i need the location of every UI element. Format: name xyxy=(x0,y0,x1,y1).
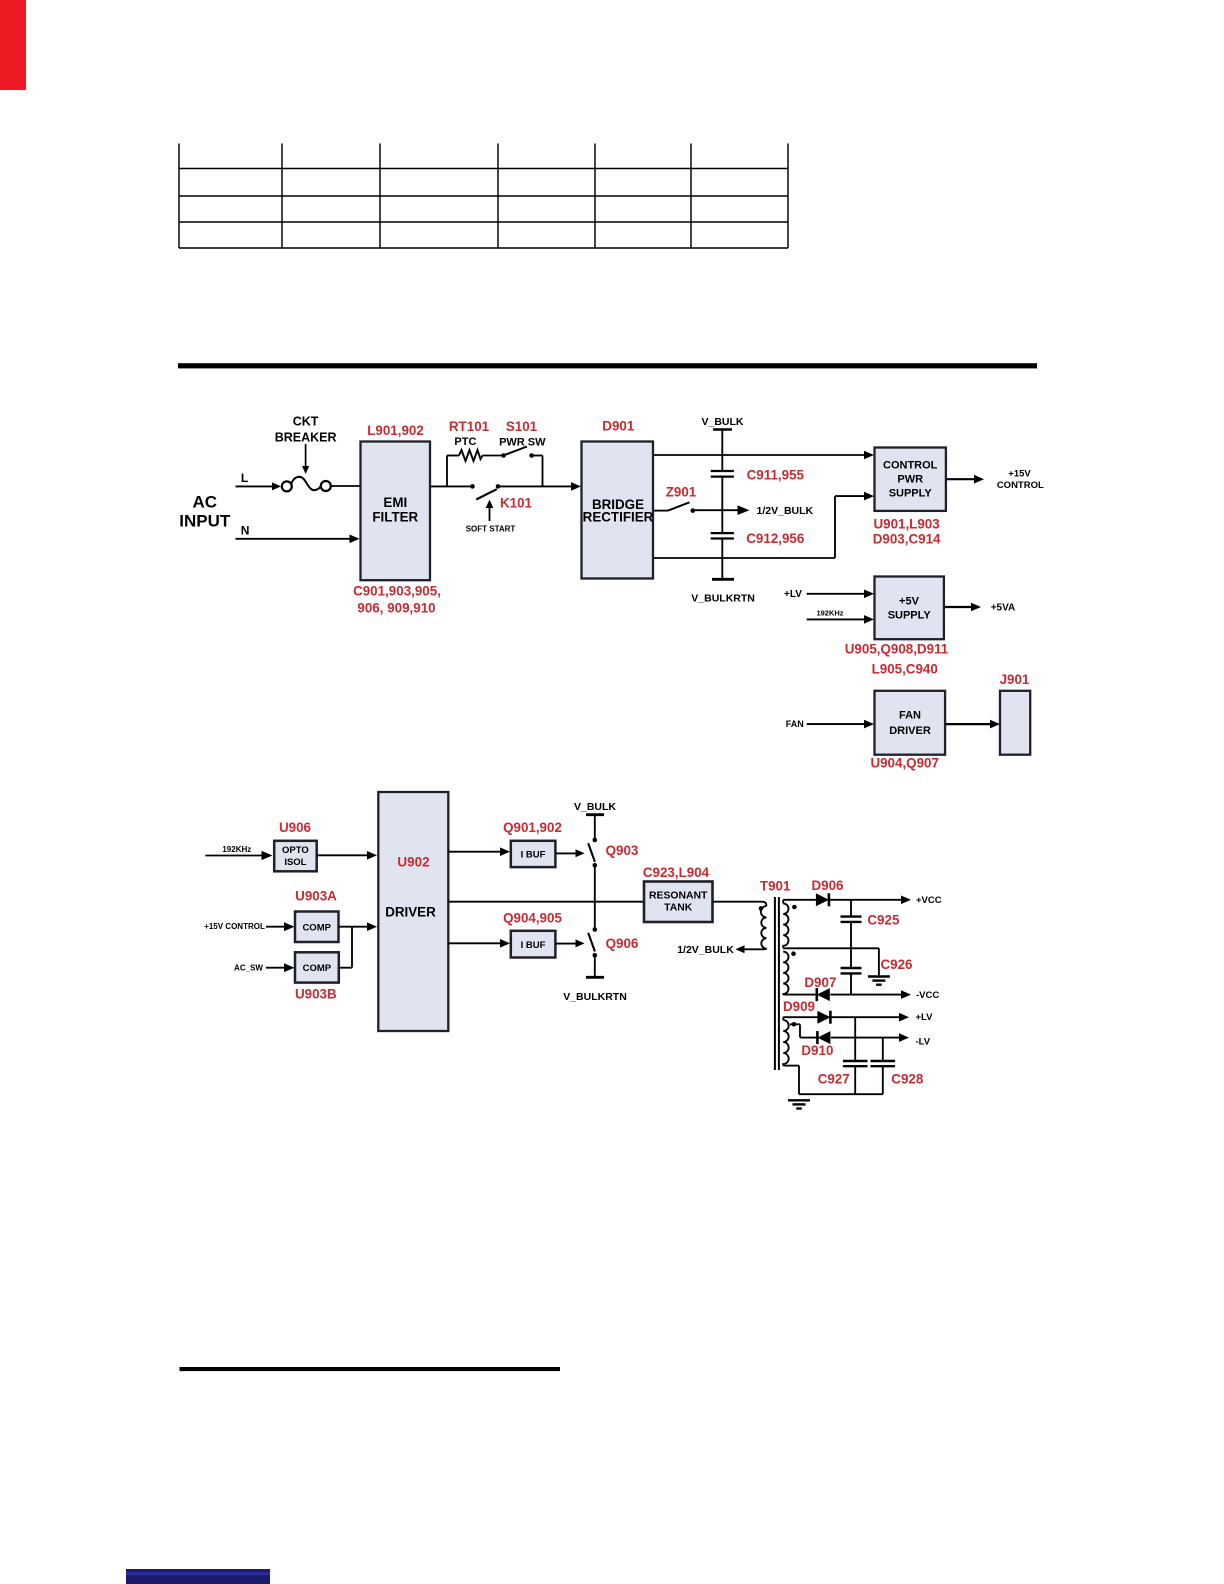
svg-text:PWR SW: PWR SW xyxy=(499,437,546,449)
svg-text:C912,956: C912,956 xyxy=(746,531,804,546)
svg-text:D909: D909 xyxy=(783,999,815,1014)
svg-text:ISOL: ISOL xyxy=(284,857,306,868)
svg-text:CKT: CKT xyxy=(293,414,319,428)
svg-text:1/2V_BULK: 1/2V_BULK xyxy=(757,505,814,517)
svg-text:SUPPLY: SUPPLY xyxy=(889,488,933,500)
svg-text:L: L xyxy=(241,471,248,485)
svg-text:FAN: FAN xyxy=(786,719,804,729)
svg-text:192KHz: 192KHz xyxy=(222,845,251,854)
svg-text:+LV: +LV xyxy=(784,589,802,600)
svg-text:-VCC: -VCC xyxy=(916,990,939,1001)
svg-text:U903A: U903A xyxy=(295,889,337,904)
svg-text:EMI: EMI xyxy=(383,495,407,510)
svg-text:C926: C926 xyxy=(880,957,912,972)
svg-text:D901: D901 xyxy=(602,419,635,434)
svg-text:RT101: RT101 xyxy=(449,419,490,434)
svg-text:BREAKER: BREAKER xyxy=(275,430,337,444)
svg-text:Q903: Q903 xyxy=(606,843,639,858)
svg-text:FILTER: FILTER xyxy=(372,509,418,524)
svg-text:COMP: COMP xyxy=(302,922,331,933)
svg-text:1/2V_BULK: 1/2V_BULK xyxy=(677,944,734,956)
svg-text:C928: C928 xyxy=(891,1071,924,1086)
svg-text:D906: D906 xyxy=(811,878,843,893)
svg-text:906, 909,910: 906, 909,910 xyxy=(357,600,435,615)
svg-text:Q906: Q906 xyxy=(606,936,639,951)
svg-text:L905,C940: L905,C940 xyxy=(872,662,938,677)
svg-text:SUPPLY: SUPPLY xyxy=(888,609,932,621)
svg-text:+5VA: +5VA xyxy=(991,602,1016,613)
svg-text:U901,L903: U901,L903 xyxy=(873,516,939,531)
svg-text:N: N xyxy=(241,524,250,538)
svg-text:+15V CONTROL: +15V CONTROL xyxy=(204,922,265,931)
svg-text:-LV: -LV xyxy=(916,1036,931,1047)
svg-text:RESONANT: RESONANT xyxy=(649,891,708,902)
svg-text:OPTO: OPTO xyxy=(282,845,309,856)
svg-text:COMP: COMP xyxy=(303,963,332,974)
svg-text:I BUF: I BUF xyxy=(521,940,546,951)
svg-text:AC_SW: AC_SW xyxy=(234,964,263,973)
svg-text:V_BULKRTN: V_BULKRTN xyxy=(563,991,627,1003)
svg-text:C925: C925 xyxy=(867,913,900,928)
svg-text:J901: J901 xyxy=(1000,672,1030,687)
svg-text:PTC: PTC xyxy=(454,436,476,448)
svg-text:L901,902: L901,902 xyxy=(367,423,424,438)
svg-text:Z901: Z901 xyxy=(666,484,697,499)
svg-text:+15V: +15V xyxy=(1008,469,1031,480)
svg-text:AC: AC xyxy=(193,493,218,512)
svg-text:S101: S101 xyxy=(506,419,538,434)
svg-text:V_BULK: V_BULK xyxy=(701,416,743,428)
svg-text:INPUT: INPUT xyxy=(179,511,231,530)
svg-text:RECTIFIER: RECTIFIER xyxy=(583,510,654,525)
svg-text:+LV: +LV xyxy=(916,1012,934,1023)
svg-text:DRIVER: DRIVER xyxy=(385,904,436,919)
svg-text:CONTROL: CONTROL xyxy=(883,460,938,472)
svg-text:192KHz: 192KHz xyxy=(816,609,843,618)
svg-text:CONTROL: CONTROL xyxy=(997,480,1044,491)
svg-text:U903B: U903B xyxy=(295,987,337,1002)
svg-text:+5V: +5V xyxy=(899,596,920,608)
svg-text:D903,C914: D903,C914 xyxy=(873,531,941,546)
svg-text:PWR: PWR xyxy=(897,474,923,486)
svg-text:U906: U906 xyxy=(279,820,311,835)
svg-text:C927: C927 xyxy=(818,1071,850,1086)
svg-text:C901,903,905,: C901,903,905, xyxy=(353,583,441,598)
svg-text:C911,955: C911,955 xyxy=(747,467,805,482)
svg-text:+VCC: +VCC xyxy=(916,895,942,906)
svg-text:Q904,905: Q904,905 xyxy=(503,911,562,926)
svg-text:SOFT START: SOFT START xyxy=(466,524,516,533)
svg-text:FAN: FAN xyxy=(899,709,921,721)
svg-text:V_BULK: V_BULK xyxy=(574,801,616,813)
svg-text:Q901,902: Q901,902 xyxy=(503,820,562,835)
svg-text:T901: T901 xyxy=(760,878,791,893)
svg-text:D907: D907 xyxy=(804,975,836,990)
svg-text:DRIVER: DRIVER xyxy=(889,725,931,737)
svg-text:U904,Q907: U904,Q907 xyxy=(870,756,939,771)
svg-text:U902: U902 xyxy=(397,854,429,869)
svg-text:I BUF: I BUF xyxy=(521,849,546,860)
svg-text:U905,Q908,D911: U905,Q908,D911 xyxy=(845,642,949,657)
svg-text:V_BULKRTN: V_BULKRTN xyxy=(691,593,755,605)
svg-text:D910: D910 xyxy=(801,1043,833,1058)
svg-text:TANK: TANK xyxy=(664,902,693,913)
svg-text:C923,L904: C923,L904 xyxy=(643,865,710,880)
svg-text:K101: K101 xyxy=(500,495,533,510)
